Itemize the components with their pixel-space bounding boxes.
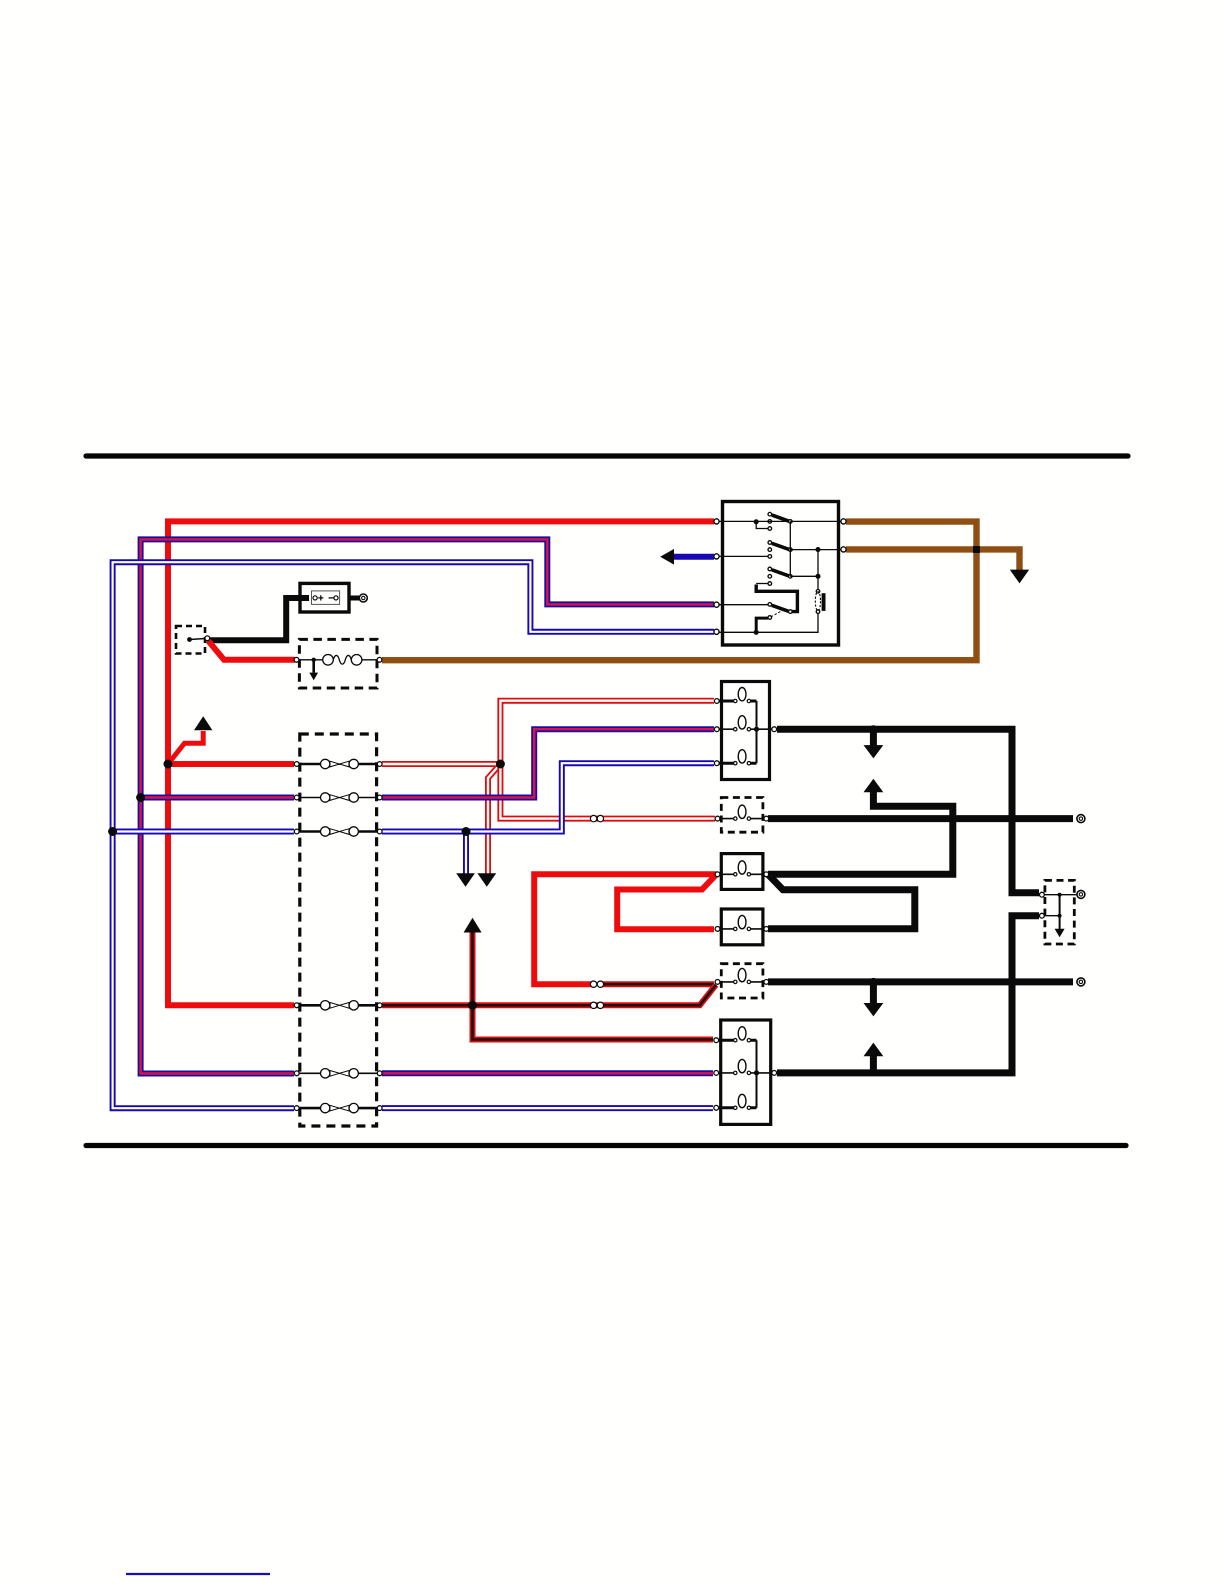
lamp cluster box L2: [721, 1020, 771, 1124]
S1 pin2 feed line: [717, 555, 768, 557]
fuse 4: [298, 1001, 378, 1010]
L1 bulb2: [734, 728, 737, 731]
arrow up B2: [864, 779, 884, 792]
pin ignition R1: [841, 519, 846, 524]
wire N ignition pinR2 to down arrow: [846, 549, 1020, 570]
fuse 1: [298, 759, 378, 768]
arrow down U: [456, 873, 475, 887]
wire UR fuse5 to lamp box2 row2: [382, 1070, 713, 1076]
arrow down B1: [864, 745, 884, 758]
connector C1: [590, 815, 596, 821]
S1 node right rail: [816, 548, 820, 552]
pins L1: [714, 699, 776, 766]
wire R arrow stub at node B1: [168, 731, 203, 764]
L2 rail node: [754, 1070, 759, 1075]
battery polarity labels: [318, 595, 323, 600]
arrow up B4: [864, 1043, 884, 1057]
S1 switch4 contact: [768, 603, 772, 607]
pins fusebox right: [377, 762, 382, 1111]
L1 row2 line: [719, 728, 772, 730]
L2 inner rail: [756, 1040, 758, 1108]
wire B lamp box1 row2 to right column: [777, 729, 1039, 893]
ignition switch box S1: [723, 502, 839, 646]
S1 common2 circle: [789, 548, 793, 552]
E1 terminal dot: [187, 637, 192, 642]
S1 common4 circle: [789, 610, 793, 614]
pin E1: [205, 636, 210, 641]
arrow up at R node: [194, 716, 212, 730]
arrow down B3: [864, 1003, 884, 1016]
node fuse1 feed: [164, 760, 173, 769]
ring terminal T3: [1077, 978, 1085, 986]
K2 row line: [719, 818, 765, 820]
S1 line to right pin2: [790, 549, 842, 551]
S1 key lamp ellipse: [815, 592, 820, 611]
wire RW branch down to arrow: [488, 764, 500, 874]
wire UR main: ignition pin3 left and down to fuse 5: [141, 539, 714, 1073]
ring terminal T1: [1077, 815, 1085, 823]
wire B earth box pin2 down to lamp box2 row2: [777, 916, 1039, 1073]
S1 pin3 feed line: [717, 604, 768, 606]
K4 bulb: [734, 927, 737, 930]
pin ignition R2: [841, 547, 846, 552]
F7 earth dot: [312, 658, 316, 662]
E2 node2: [1058, 914, 1062, 918]
wire B up arrow to relay3 right pin: [768, 792, 953, 875]
S1 common1 circle: [789, 520, 793, 524]
earth dashed box E2: [1045, 880, 1074, 944]
S1 switch3 lever: [772, 570, 789, 576]
S1 common3 circle: [789, 575, 793, 579]
K3 bulb: [734, 873, 737, 876]
node B relay5 feed: [869, 978, 877, 986]
battery box: [300, 583, 349, 612]
earth header dashed box E1: [176, 626, 205, 654]
fuse 2: [298, 793, 378, 802]
E2 rail: [1059, 895, 1061, 930]
pin ignition L4: [714, 629, 719, 634]
node fuse2 feed: [136, 793, 145, 802]
S1 pin1 feed line: [717, 520, 789, 522]
L1 inner rail: [756, 701, 758, 763]
S1 switch4 lever: [772, 605, 789, 611]
wire UR from fuse2 up to lamp box row2: [382, 729, 714, 797]
K4 row line: [719, 928, 765, 930]
wire U fuse6 to lamp box2 row3: [382, 1105, 713, 1111]
S1 key lamp bottom terminal: [816, 610, 820, 614]
wire B U-link relay3 to relay4 right pins: [768, 874, 915, 928]
L1 bulb3: [734, 762, 737, 765]
lamp cluster box L1: [722, 682, 770, 780]
pin F7 left: [294, 657, 299, 662]
node N brown cross: [973, 546, 980, 553]
F7 earth arrow: [309, 673, 318, 681]
E2 pin1 line: [1040, 894, 1077, 896]
wire R loop from relay3 down to connector C2: [534, 874, 716, 984]
F7 link circles: [323, 655, 334, 666]
S1 line common3 to lamp rail: [790, 575, 818, 577]
wire U branch to fuse 3: [113, 829, 294, 835]
wire R branch to fuse 1: [168, 761, 294, 767]
F7 lead lines: [298, 659, 378, 661]
wire RB connector C2 to relay5 pin: [601, 981, 714, 987]
wire RW from fuse1 up to lamp box row1: [500, 701, 714, 764]
wire R earth header to fusible link: [208, 641, 295, 660]
wire R main: ignition pin1 left, down left column, to fuse 4: [168, 521, 714, 1005]
pins L2: [714, 1038, 777, 1110]
L1 rail node: [754, 727, 759, 732]
wire B stub from up arrow to lamp box2 wire: [870, 1055, 877, 1071]
arrow up RB: [464, 918, 482, 933]
pins K5: [715, 980, 769, 985]
wire RW node down to relay 2: [500, 764, 715, 819]
arrow left U ignition: [660, 549, 674, 565]
L2 bulb1: [734, 1039, 737, 1042]
S1 park staircase: [756, 585, 797, 612]
pin ignition L1: [714, 519, 719, 524]
S1 line to right pin1: [790, 520, 842, 522]
arrow down N: [1010, 570, 1029, 584]
L1 row1 line: [719, 700, 757, 703]
S1 lamp rail vertical: [817, 550, 819, 590]
L2 row3 line: [719, 1106, 757, 1109]
pins K4: [715, 927, 769, 932]
wire RB node down to lamp box2 row1: [473, 1005, 714, 1039]
fuse 3: [298, 827, 378, 836]
wire RB fuse4 to diagonal junction: [382, 985, 716, 1006]
wire B battery to earth header: [209, 598, 309, 640]
node B lamp feed: [869, 725, 877, 733]
S1 lower contact link: [756, 618, 768, 632]
K2 bulb: [734, 817, 737, 820]
S1 link to lower contact: [756, 522, 767, 529]
node RW split: [496, 760, 505, 769]
fuse 6: [298, 1103, 378, 1112]
L1 row3 line: [719, 762, 757, 765]
wire N fusible link right to ignition pinR1: [382, 522, 977, 661]
relay dashed box K2: [721, 798, 763, 833]
L1 bulb1: [734, 699, 737, 702]
arrow down RW: [477, 873, 496, 887]
S1 switch4 lower contact: [768, 616, 772, 620]
S1 switch1 contacts: [768, 512, 772, 516]
pins E2: [1040, 892, 1045, 918]
pins fusebox left: [294, 762, 299, 1111]
wire RB node up to arrow: [470, 933, 476, 1006]
pin ignition L2: [714, 554, 719, 559]
S1 node pin4 rail: [754, 630, 758, 634]
main fusebox dashed box P1: [300, 734, 377, 1126]
E2 arrow: [1055, 929, 1065, 937]
S1 switch2 lever: [772, 543, 789, 549]
S1 switch2 contacts: [768, 541, 772, 545]
L2 bulb2: [734, 1071, 737, 1074]
E2 node1: [1058, 893, 1062, 897]
S1 node common3: [816, 574, 820, 578]
S1 switch4 open position dashed: [772, 610, 785, 617]
relay box K3: [721, 854, 763, 890]
node fuse3 feed: [108, 827, 117, 836]
wire B relay2 to ring terminal: [768, 815, 1073, 822]
wire R U-link relay3 to relay4 left pins: [617, 874, 716, 929]
K5 bulb: [734, 980, 737, 983]
node U split: [462, 827, 471, 836]
wire U from fuse3 up to lamp box row3: [382, 763, 714, 831]
E1 terminal lead: [190, 639, 206, 640]
pin F7 right: [377, 657, 382, 662]
E2 pin2 line: [1040, 915, 1060, 917]
L2 row1 line: [719, 1039, 757, 1042]
battery output stub: [349, 596, 359, 601]
wire U stub with arrow at ignition pin2: [674, 554, 714, 560]
wire RW from fuse1 to node: [382, 761, 500, 767]
pins K2: [715, 816, 769, 821]
wire U main: ignition pin4 left and down to fuse 6: [113, 562, 714, 1108]
wire U branch down to arrow: [463, 832, 469, 875]
relay box K4: [721, 909, 763, 945]
S1 lamp rail to pin4 line: [717, 613, 818, 632]
fuse 5: [298, 1069, 378, 1078]
S1 key lamp top terminal: [816, 590, 820, 594]
wire B stub to down arrow under lamp feed: [870, 729, 877, 746]
S1 common rail: [789, 521, 791, 576]
wire B node down to arrow below relay5: [870, 982, 877, 1004]
S1 key lamp element bar: [822, 593, 826, 611]
S1 park contact link: [756, 583, 768, 585]
fusible link dashed box F7: [299, 639, 377, 688]
K3 row line: [719, 873, 765, 875]
wire UR branch to fuse 2: [141, 795, 294, 801]
connector C3: [590, 1002, 596, 1008]
top rule: [86, 453, 1128, 458]
battery terminal circles: [313, 596, 317, 600]
L2 row2 line: [719, 1072, 772, 1074]
K5 row line: [719, 981, 765, 983]
ring terminal T2: [1077, 890, 1085, 898]
bottom rule: [86, 1143, 1126, 1148]
node RB split: [468, 1001, 477, 1010]
wire B relay5 to ring terminal: [768, 978, 1073, 985]
F7 earth stem: [312, 660, 315, 673]
F7 link wave: [333, 655, 351, 664]
S1 switch1 lever: [772, 515, 789, 521]
S1 switch3 contacts: [768, 567, 772, 571]
pin ignition L3: [714, 602, 719, 607]
relay dashed box K5: [721, 964, 763, 998]
pins K3: [715, 872, 769, 877]
L2 bulb3: [734, 1106, 737, 1109]
battery inner cell: [312, 591, 340, 605]
footer link underline: [126, 1573, 270, 1575]
connector C2: [590, 981, 596, 987]
ring terminal battery: [359, 594, 367, 602]
S1 node pin1 rail: [754, 520, 758, 524]
